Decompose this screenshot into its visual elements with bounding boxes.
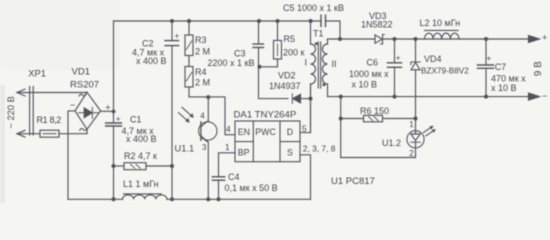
pin 4 label EN bbox=[226, 124, 231, 134]
wire BP to C4 bbox=[219, 153, 236, 177]
node C6 bottom junction bbox=[393, 95, 397, 99]
wire feedback vertical bbox=[340, 97, 342, 158]
pin 5 label D bbox=[302, 123, 307, 133]
optocoupler LED U1.2 bbox=[382, 119, 436, 159]
wire secondary top to output rail bbox=[327, 39, 329, 44]
transformer T1 core bbox=[313, 29, 324, 89]
wire bottom rail mid bbox=[167, 198, 311, 200]
svg-text:5: 5 bbox=[302, 123, 307, 133]
svg-text:DA1 TNY264P: DA1 TNY264P bbox=[234, 110, 297, 121]
svg-text:4: 4 bbox=[226, 124, 231, 134]
wire bridge plus to node bbox=[101, 110, 114, 112]
svg-text:VD2: VD2 bbox=[278, 71, 296, 81]
svg-text:2 М: 2 М bbox=[195, 47, 210, 57]
wire R5 to clamp node bbox=[259, 66, 278, 68]
svg-text:+: + bbox=[542, 33, 547, 43]
svg-text:C4: C4 bbox=[228, 172, 240, 182]
resistor R5 200k bbox=[274, 19, 305, 67]
capacitor C4 0.1u 50V bbox=[212, 172, 277, 199]
svg-text:+: + bbox=[175, 31, 180, 40]
diode VD3 1N5822 schottky bbox=[361, 11, 393, 44]
svg-text:T1: T1 bbox=[313, 29, 324, 39]
node C4 bottom rail junction bbox=[217, 197, 221, 201]
node R2 right junction bbox=[170, 164, 174, 168]
svg-text:BZX79-B8V2: BZX79-B8V2 bbox=[421, 67, 469, 76]
resistor R4 2M bbox=[185, 67, 210, 88]
svg-text:1: 1 bbox=[225, 142, 230, 152]
svg-text:U1.1: U1.1 bbox=[175, 144, 195, 154]
svg-text:RS207: RS207 bbox=[70, 80, 99, 91]
node C5 secondary rail junction bbox=[338, 37, 342, 41]
svg-text:−: − bbox=[70, 100, 75, 110]
svg-text:L2 10 мГн: L2 10 мГн bbox=[420, 18, 461, 28]
label ~220 V input bbox=[6, 96, 16, 128]
wire VD3 to output plus arrow bbox=[382, 38, 529, 40]
chip DA1 TNY264P bbox=[234, 110, 301, 162]
resistor R3 2M bbox=[185, 19, 210, 57]
diode VD2 1N4937 bbox=[269, 71, 311, 104]
svg-text:D: D bbox=[287, 127, 293, 137]
svg-text:0,1 мк х 50 В: 0,1 мк х 50 В bbox=[225, 183, 278, 193]
svg-text:U1.2: U1.2 bbox=[382, 138, 401, 148]
svg-text:I: I bbox=[305, 58, 308, 68]
optocoupler transistor U1.1 bbox=[175, 97, 218, 199]
node L1 left junction bbox=[112, 197, 116, 201]
connector XP1 bbox=[17, 68, 46, 138]
wire secondary ground line bbox=[328, 96, 529, 98]
node C1 R2 junction bbox=[112, 164, 116, 168]
wire top rail bbox=[114, 20, 322, 22]
svg-text:R2 4,7 к: R2 4,7 к bbox=[124, 151, 157, 161]
svg-text:1: 1 bbox=[409, 120, 414, 129]
svg-text:+: + bbox=[396, 53, 401, 62]
svg-text:1000 мк х: 1000 мк х bbox=[349, 69, 389, 79]
resistor R1 8.2 bbox=[37, 115, 62, 137]
svg-text:C6: C6 bbox=[367, 58, 379, 68]
label U1 PC817 bbox=[331, 176, 375, 187]
svg-text:3: 3 bbox=[202, 143, 207, 152]
svg-text:2200 x 1 кВ: 2200 x 1 кВ bbox=[208, 58, 255, 68]
capacitor C1 4.7u 400V bbox=[106, 111, 157, 166]
svg-text:II: II bbox=[332, 59, 337, 69]
svg-text:C1: C1 bbox=[130, 114, 142, 124]
wire clamp node down to VD2 bbox=[259, 67, 289, 99]
inductor L1 1 mH bbox=[123, 179, 168, 199]
node R6 left junction bbox=[339, 117, 343, 121]
svg-text:VD4: VD4 bbox=[424, 54, 442, 64]
T1 secondary winding II bbox=[323, 44, 337, 97]
bridge rectifier VD1 RS207 bbox=[70, 67, 110, 131]
svg-text:470 мк х: 470 мк х bbox=[491, 74, 526, 84]
inductor L2 10 mH bbox=[420, 18, 461, 39]
T1 primary winding I bbox=[305, 19, 318, 133]
wire R3 to R4 bbox=[188, 56, 190, 67]
svg-text:2: 2 bbox=[409, 149, 414, 158]
wire D pin to drain riser bbox=[300, 84, 311, 133]
svg-text:R6 150: R6 150 bbox=[360, 106, 389, 116]
label 9V output bbox=[533, 61, 544, 76]
node C7 bottom junction bbox=[484, 95, 488, 99]
wire S pin to bottom rail bbox=[300, 155, 311, 200]
svg-text:EN: EN bbox=[238, 127, 250, 137]
node LED anode junction bbox=[414, 117, 418, 121]
svg-text:−: − bbox=[542, 91, 547, 101]
output minus arrow bbox=[529, 91, 548, 101]
svg-text:C3: C3 bbox=[234, 48, 246, 58]
svg-text:х 400 В: х 400 В bbox=[126, 134, 157, 144]
svg-text:R3: R3 bbox=[195, 35, 207, 45]
svg-text:C7: C7 bbox=[495, 62, 507, 72]
svg-text:R5: R5 bbox=[284, 34, 296, 44]
svg-text:S: S bbox=[287, 147, 293, 157]
wire C2 to bottom rail bbox=[171, 166, 173, 199]
capacitor C6 1000u 10V bbox=[349, 39, 402, 97]
output plus arrow bbox=[529, 33, 548, 43]
wire C1 node to bottom rail bbox=[113, 166, 115, 199]
wire R4 to EN line bbox=[189, 87, 235, 135]
wire bridge minus to bottom rail bbox=[68, 111, 75, 199]
resistor R6 150 bbox=[341, 106, 416, 122]
svg-text:+: + bbox=[487, 54, 492, 63]
node bridge plus junction bbox=[112, 110, 116, 114]
svg-text:R1 8,2: R1 8,2 bbox=[37, 115, 62, 125]
svg-text:1N4937: 1N4937 bbox=[269, 81, 301, 91]
wire lower AC input to R1 bbox=[17, 133, 40, 135]
svg-text:2 М: 2 М bbox=[195, 78, 210, 88]
svg-text:L1 1 мГн: L1 1 мГн bbox=[123, 179, 159, 189]
capacitor C3 2200p 1kV bbox=[208, 19, 264, 68]
wire secondary rail to VD3 bbox=[328, 38, 376, 40]
zener diode VD4 BZX79-B8V2 bbox=[411, 39, 469, 119]
svg-text:x 10 В: x 10 В bbox=[491, 83, 517, 93]
svg-text:200 к: 200 к bbox=[283, 48, 305, 58]
node C2 bottom rail junction bbox=[170, 197, 174, 201]
svg-text:PWC: PWC bbox=[255, 127, 276, 137]
capacitor C2 4.7u 400V bbox=[132, 19, 180, 166]
svg-text:~ 220 В: ~ 220 В bbox=[6, 96, 16, 128]
node clamp junction bbox=[258, 65, 262, 69]
node C7 top junction bbox=[484, 37, 488, 41]
svg-text:U1 PC817: U1 PC817 bbox=[331, 176, 375, 187]
node C6 top junction bbox=[393, 37, 397, 41]
wire riser plus node to top rail bbox=[113, 21, 115, 111]
svg-text:x 10 В: x 10 В bbox=[352, 80, 378, 90]
svg-text:2, 3, 7, 8: 2, 3, 7, 8 bbox=[303, 143, 336, 153]
wire upper AC input bbox=[17, 91, 87, 93]
wire bottom rail left bbox=[68, 198, 123, 200]
node opto emitter bottom rail junction bbox=[206, 197, 210, 201]
svg-text:BP: BP bbox=[238, 147, 250, 157]
svg-text:1N5822: 1N5822 bbox=[361, 20, 393, 30]
wire LED cathode return bbox=[341, 157, 416, 159]
resistor R2 4.7k parallel to L1 bbox=[114, 151, 173, 170]
svg-text:VD1: VD1 bbox=[72, 67, 90, 78]
svg-text:C5 1000 x 1 кВ: C5 1000 x 1 кВ bbox=[283, 3, 344, 13]
svg-text:х 400 В: х 400 В bbox=[136, 56, 167, 66]
svg-text:+: + bbox=[116, 114, 121, 123]
svg-text:9 В: 9 В bbox=[533, 61, 544, 76]
pin 2 3 7 8 label S bbox=[303, 143, 336, 153]
node opto collector junction bbox=[206, 95, 210, 99]
capacitor C5 1000p 1kV bbox=[283, 3, 344, 39]
node feedback junction bbox=[339, 95, 343, 99]
node VD4 top junction bbox=[414, 37, 418, 41]
node drain clamp junction bbox=[309, 97, 313, 101]
capacitor C7 470u 10V bbox=[478, 39, 527, 97]
wire R1 to bridge lower corner bbox=[59, 129, 87, 133]
svg-text:4: 4 bbox=[200, 111, 205, 120]
svg-text:XP1: XP1 bbox=[28, 68, 46, 79]
pin 1 label BP bbox=[225, 142, 230, 152]
svg-text:R4: R4 bbox=[195, 67, 207, 77]
